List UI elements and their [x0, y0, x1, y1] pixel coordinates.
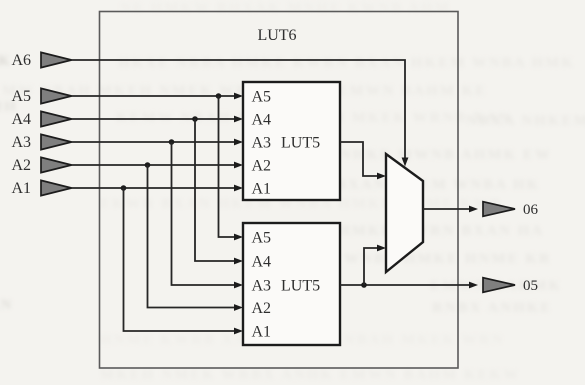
svg-text:06: 06	[523, 202, 539, 218]
wire A2 to upper LUT5	[72, 164, 237, 166]
svg-text:LUT5: LUT5	[281, 278, 320, 295]
mux (2:1 multiplexer)	[386, 154, 423, 272]
junction on A5 wire	[216, 93, 222, 99]
output buffer O5	[483, 278, 515, 293]
svg-text:LUT5: LUT5	[281, 135, 320, 152]
wire A4 branch to lower LUT5	[195, 119, 236, 261]
svg-text:A4: A4	[252, 112, 272, 129]
arrowhead A4 lower LUT5	[234, 258, 243, 265]
wire A1 to upper LUT5	[72, 187, 237, 189]
upper LUT5 block	[243, 82, 340, 200]
wire mux output to O6	[423, 208, 471, 210]
svg-text:A4: A4	[11, 111, 31, 128]
svg-text:A5: A5	[252, 89, 272, 106]
faint bleed-through text from reverse page (decorative)	[120, 0, 451, 17]
input buffer A2	[41, 157, 72, 172]
wire lower LUT5 output to O5 line	[340, 284, 471, 286]
arrowhead A6 into mux	[402, 158, 409, 167]
arrowhead A2 lower LUT5	[234, 304, 243, 311]
arrowhead O5	[469, 282, 478, 289]
wire branch lower LUT5 output to mux input 0	[364, 248, 378, 285]
input buffer A6	[41, 52, 72, 67]
arrowhead A2 upper LUT5	[234, 162, 243, 169]
svg-text:A6: A6	[11, 52, 31, 69]
wire A3 branch to lower LUT5	[172, 142, 237, 285]
svg-text:LUT6: LUT6	[257, 27, 296, 44]
svg-text:A3: A3	[252, 278, 272, 295]
wire upper LUT5 output to mux input 1	[340, 142, 378, 176]
wire A5 to upper LUT5	[72, 95, 237, 97]
input buffer A4	[41, 111, 72, 126]
svg-text:A1: A1	[252, 181, 272, 198]
svg-text:A5: A5	[252, 230, 272, 247]
svg-text:A1: A1	[11, 180, 31, 197]
arrowhead into mux input 1	[377, 173, 386, 180]
arrowhead A1 upper LUT5	[234, 185, 243, 192]
svg-text:A2: A2	[11, 157, 31, 174]
svg-text:A3: A3	[11, 134, 31, 151]
svg-text:A3: A3	[252, 135, 272, 152]
arrowhead into mux input 0	[377, 245, 386, 252]
svg-text:A2: A2	[252, 300, 272, 317]
junction on lower LUT5 output	[361, 282, 367, 288]
arrowhead A5 upper LUT5	[234, 93, 243, 100]
wire A6 (to mux select, top entry)	[72, 60, 406, 159]
arrowhead A5 lower LUT5	[234, 234, 243, 241]
wire A4 to upper LUT5	[72, 118, 237, 120]
junction on A2 wire	[145, 162, 151, 168]
arrowhead A3 upper LUT5	[234, 139, 243, 146]
junction on A4 wire	[192, 116, 198, 122]
input buffer A3	[41, 134, 72, 149]
lower LUT5 block	[243, 223, 340, 345]
svg-text:A1: A1	[252, 324, 272, 341]
junction on A3 wire	[169, 139, 175, 145]
junction on A1 wire	[121, 185, 127, 191]
wire A1 branch to lower LUT5	[124, 188, 237, 331]
arrowhead O6	[469, 206, 478, 213]
arrowhead A3 lower LUT5	[234, 282, 243, 289]
LUT6 boundary box	[100, 12, 459, 369]
input buffer A1	[41, 180, 72, 195]
wire A2 branch to lower LUT5	[148, 165, 237, 308]
arrowhead A1 lower LUT5	[234, 328, 243, 335]
wire A5 branch to lower LUT5	[219, 96, 237, 237]
svg-text:A4: A4	[252, 254, 272, 271]
arrowhead A4 upper LUT5	[234, 116, 243, 123]
input buffer A5	[41, 88, 72, 103]
svg-text:A2: A2	[252, 158, 272, 175]
wire A3 to upper LUT5	[72, 141, 237, 143]
svg-text:A5: A5	[11, 88, 31, 105]
svg-text:05: 05	[523, 278, 538, 294]
output buffer O6	[483, 202, 515, 217]
